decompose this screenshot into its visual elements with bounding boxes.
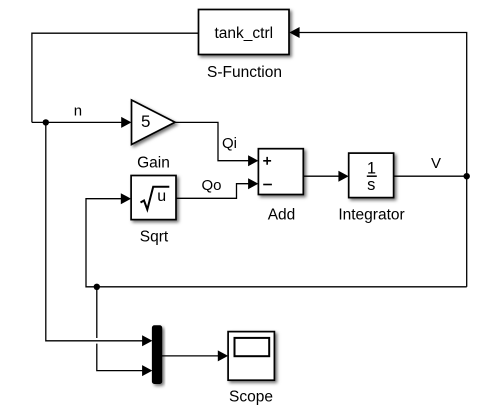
arrowhead into tank_ctrl [289,27,299,38]
wire: branch down to Mux input 2 (with crossover gap) [96,287,98,338]
svg-text:Sqrt: Sqrt [140,229,169,246]
scope block [228,332,274,381]
mux block (black bar) [152,326,161,384]
wire: V feedback up to tank_ctrl input [300,33,467,177]
arrowhead into Gain [121,117,131,128]
svg-text:Integrator: Integrator [338,207,404,224]
sqrt radical glyph [141,187,170,210]
wire: Sqrt output Qo to Add - input [176,184,249,199]
svg-text:V: V [431,155,441,172]
add block [258,149,303,195]
wire: Mux output to Scope [162,355,219,357]
svg-text:Scope: Scope [229,388,273,405]
wire: Gain output Qi to Add + input [175,122,249,160]
S-Function block tank_ctrl [199,10,290,55]
arrowhead into Mux input 1 [142,335,152,346]
svg-text:Add: Add [268,206,296,223]
wire: n branch down to Mux input 1 [46,122,143,340]
plus sign [263,157,271,165]
svg-text:tank_ctrl: tank_ctrl [215,25,274,42]
svg-text:5: 5 [141,112,150,131]
node junction on bottom feedback [94,284,100,290]
svg-text:u: u [157,188,166,205]
wire: V feedback down and left to Sqrt input [86,199,467,287]
scope screen [235,338,270,356]
arrowhead into Sqrt [121,193,131,204]
node junction on n wire [43,119,49,125]
arrowhead into Add - input [248,178,258,189]
svg-text:Qi: Qi [222,135,237,152]
svg-text:n: n [74,103,82,120]
svg-text:s: s [367,176,375,194]
svg-text:1: 1 [367,159,376,177]
arrowhead into Add + input [248,155,258,166]
wire: n signal into Gain [32,121,122,123]
wire: Integrator output V to right [394,175,467,177]
svg-text:S-Function: S-Function [207,64,282,81]
svg-text:Gain: Gain [137,155,170,172]
sqrt block [131,176,176,220]
wire: Add output to Integrator [303,175,339,177]
arrowhead into Mux input 2 [142,365,152,376]
svg-text:Qo: Qo [202,177,222,194]
arrowhead into Integrator [338,171,348,182]
integrator block [349,153,394,198]
arrowhead into Scope [218,350,228,361]
minus sign [263,184,272,186]
wire: tank_ctrl output left then down [32,33,199,122]
node junction V [464,173,470,179]
gain block (triangle) [132,100,176,145]
